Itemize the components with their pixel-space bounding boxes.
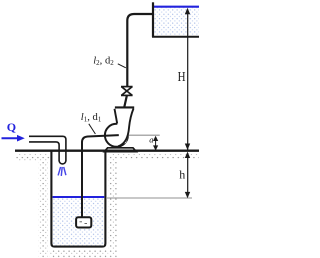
svg-text:h: h (179, 168, 185, 182)
svg-text:Q: Q (7, 120, 16, 134)
svg-text:H: H (178, 69, 186, 84)
svg-text:l1, d1: l1, d1 (81, 112, 102, 124)
svg-text:l2, d2: l2, d2 (93, 55, 114, 67)
svg-text:a: a (149, 135, 153, 145)
